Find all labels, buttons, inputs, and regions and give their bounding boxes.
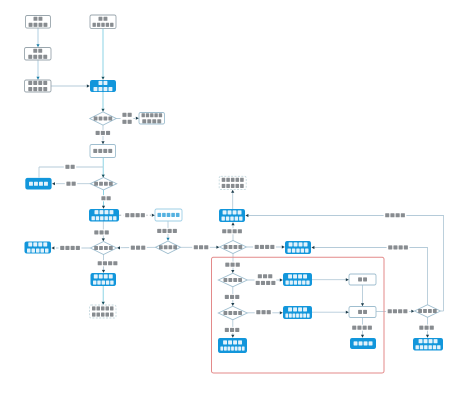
arrowhead into view-item top xyxy=(101,77,104,80)
wire group-state2 up success xyxy=(232,225,234,241)
label 拼团中 3 xyxy=(418,325,436,331)
box 拼团详情（邀请好友）2 xyxy=(413,338,443,351)
arrowhead into order-list2 top xyxy=(361,335,364,338)
wire pay branch down to order-list xyxy=(38,167,40,178)
box 用户登录小程序 xyxy=(90,15,116,29)
wire pay-state to detail-unpaid xyxy=(247,312,280,314)
label 已支付 xyxy=(223,327,241,333)
wire feedback group-success xyxy=(441,310,444,312)
arrowhead into detail-paid top xyxy=(231,335,234,338)
arrowhead into order-pay xyxy=(101,141,104,144)
label 拼团成功 1 xyxy=(96,260,119,266)
decision 参与状态 xyxy=(218,273,247,287)
red highlight frame xyxy=(212,257,385,373)
wire user-list to group-state2 xyxy=(180,246,217,248)
arrowhead into pay-box top xyxy=(361,303,364,306)
decision 拼团状态 1 xyxy=(90,242,116,255)
box 订单状态变更待发货 mid xyxy=(219,176,246,189)
wire pay-box to group-state3 xyxy=(376,311,411,313)
decision 活动状态 xyxy=(90,112,116,125)
arrowhead into order-list right xyxy=(52,182,55,185)
label 可拼团 xyxy=(94,130,112,136)
label 拼团失败 2 xyxy=(253,244,276,250)
arrowhead into detail-failed1 xyxy=(51,246,54,249)
decision 拼团状态 2 xyxy=(220,241,247,254)
arrowhead into view-item left xyxy=(87,84,90,87)
wire feedback group-success vertical xyxy=(249,216,444,312)
wire group-state2 fail to detail-failed2 xyxy=(247,246,283,248)
arrowhead into invite2 top xyxy=(426,335,429,338)
wire join-state down to pay-state xyxy=(232,287,234,303)
label 未下单 xyxy=(258,274,273,278)
arrowhead into detail-success-mid right xyxy=(245,214,248,217)
box 订单状态变更待发货 left xyxy=(90,305,117,318)
arrowhead into detail-success-left xyxy=(102,270,105,273)
wire detail-unpaid to pay-box xyxy=(312,311,347,313)
decision 支付状态 xyxy=(218,306,247,320)
box 拼团详情（邀请好友） xyxy=(89,209,119,222)
box 小程序卡片 xyxy=(155,209,182,221)
box 支付 xyxy=(349,307,376,318)
arrowhead into order-status-left xyxy=(102,302,105,305)
wire wechat-share dashed xyxy=(119,214,151,216)
wire pay branch horizontal xyxy=(39,166,103,168)
wire pay-box down fail xyxy=(362,318,364,336)
wire setup-activity to add-product xyxy=(37,28,39,46)
wire detail-join to place-order xyxy=(312,279,347,281)
decision 支付结果 xyxy=(90,178,116,190)
label 未支付 xyxy=(255,309,273,315)
label 微信分享 xyxy=(124,212,147,218)
arrowhead into user-list top xyxy=(166,238,169,241)
wire activity-state to rule-display xyxy=(116,118,135,120)
box 按规则显示Item页面 xyxy=(139,113,165,125)
label 不可拼团 line1 xyxy=(122,113,131,117)
wire group-state2 down to join-state xyxy=(232,254,234,271)
wire view-item to activity-state xyxy=(102,92,104,109)
arrowhead into pay-box left xyxy=(346,311,349,314)
label 发起人 xyxy=(129,245,147,251)
label 未下单且团未满 backing xyxy=(255,273,277,286)
wire order-pay to pay-result xyxy=(102,158,104,176)
label 拼团失败 feedback xyxy=(387,244,410,250)
wire invite to group-state1 xyxy=(102,222,104,240)
box 拼团详情（已失败）right xyxy=(285,241,311,254)
arrowhead into display-mode xyxy=(36,77,39,80)
wire detail-success-mid to order-status-mid xyxy=(232,193,234,210)
label 支付 xyxy=(64,164,76,170)
box 拼团详情（参与未支付） xyxy=(283,306,312,319)
wire pay-state down paid xyxy=(232,320,234,336)
label 支付成功 xyxy=(386,308,409,314)
arrowhead into detail-failed2 left xyxy=(282,245,285,248)
arrowhead into group-state1 right xyxy=(117,246,120,249)
label 拼团成功 mid xyxy=(221,228,244,234)
label 拼团成功 feedback xyxy=(384,212,407,218)
wire user-list to group-state1 xyxy=(121,246,156,248)
label 拼团失败 1 xyxy=(59,245,82,251)
label 已下单 xyxy=(223,294,241,300)
wire feedback group-fail vertical xyxy=(315,248,428,305)
box 查看Item页面 xyxy=(90,80,116,92)
wire group-state1 down success xyxy=(103,255,105,272)
box 设置商品展示方式 xyxy=(25,80,52,92)
box 拼团详情（已失败）left xyxy=(25,242,52,254)
arrowhead into group-state3 left xyxy=(411,310,414,313)
box 拼团详情（已成功）mid xyxy=(219,209,245,222)
box 拼团详情（参与拼团） xyxy=(283,273,312,286)
label 失败 xyxy=(65,181,77,187)
box 添加拼团商品 xyxy=(25,48,52,61)
wire detail-success-left to order-status-left xyxy=(102,286,104,302)
label 且团未满 xyxy=(256,281,276,285)
arrowhead into activity-state xyxy=(101,109,104,112)
arrowhead into place-order left xyxy=(346,278,349,281)
label 不可拼团 backing xyxy=(121,112,134,126)
arrowhead into detail-join left xyxy=(280,278,283,281)
box 下单 xyxy=(349,274,376,285)
wire user-login to view-item xyxy=(102,29,104,77)
wire join-state to detail-join xyxy=(247,279,280,281)
box 订单列表 2 xyxy=(350,338,376,349)
box 拼团详情（已成功）left xyxy=(91,273,117,286)
label 点击打开 xyxy=(156,228,179,234)
arrowhead into rule-display xyxy=(136,117,139,120)
wire group-state3 down xyxy=(427,317,429,335)
arrowhead into detail-failed2 right xyxy=(311,246,314,249)
box 下单支付 xyxy=(90,145,116,158)
wire pay-result success to group-detail-invite xyxy=(103,190,105,207)
arrowhead into join-state top xyxy=(231,270,234,273)
label 支付失败 xyxy=(351,325,374,331)
label 拼团中 1 xyxy=(93,229,111,235)
arrowhead into group-detail-invite xyxy=(102,206,105,209)
box 设置拼团活动 xyxy=(26,16,51,29)
arrowhead into pay-result xyxy=(102,175,105,178)
arrowhead into add-product xyxy=(36,44,39,47)
box 订单列表 xyxy=(25,178,51,190)
arrowhead into mini-card xyxy=(152,214,155,217)
wire activity-state to order-pay xyxy=(102,125,104,141)
wire mini-card to user-list xyxy=(167,221,169,238)
label 参与人 xyxy=(192,244,210,250)
decision 拼团状态 3 xyxy=(415,305,441,318)
arrowhead into order-status-mid bottom xyxy=(231,190,234,193)
wire pay-result fail to order-list xyxy=(56,183,90,185)
arrowhead into group-state2 left xyxy=(216,246,219,249)
label 成功 xyxy=(100,195,112,201)
label 拼团中 2 xyxy=(224,262,242,268)
wire add-product to display-mode xyxy=(37,60,39,78)
wire display-mode to view-item xyxy=(51,85,87,87)
wire group-state1 fail to detail-failed1 xyxy=(56,247,90,249)
label 不可拼团 line2 xyxy=(122,120,131,124)
arrowhead into detail-success-mid bottom xyxy=(231,222,234,225)
box 拼团详情（参与已支付） xyxy=(218,338,247,353)
decision 用户列表 xyxy=(156,241,181,254)
arrowhead into group-state1 top xyxy=(102,238,105,241)
wire place-order to pay-box xyxy=(362,285,364,304)
arrowhead into detail-unpaid left xyxy=(280,311,283,314)
arrowhead into pay-state top xyxy=(231,303,234,306)
